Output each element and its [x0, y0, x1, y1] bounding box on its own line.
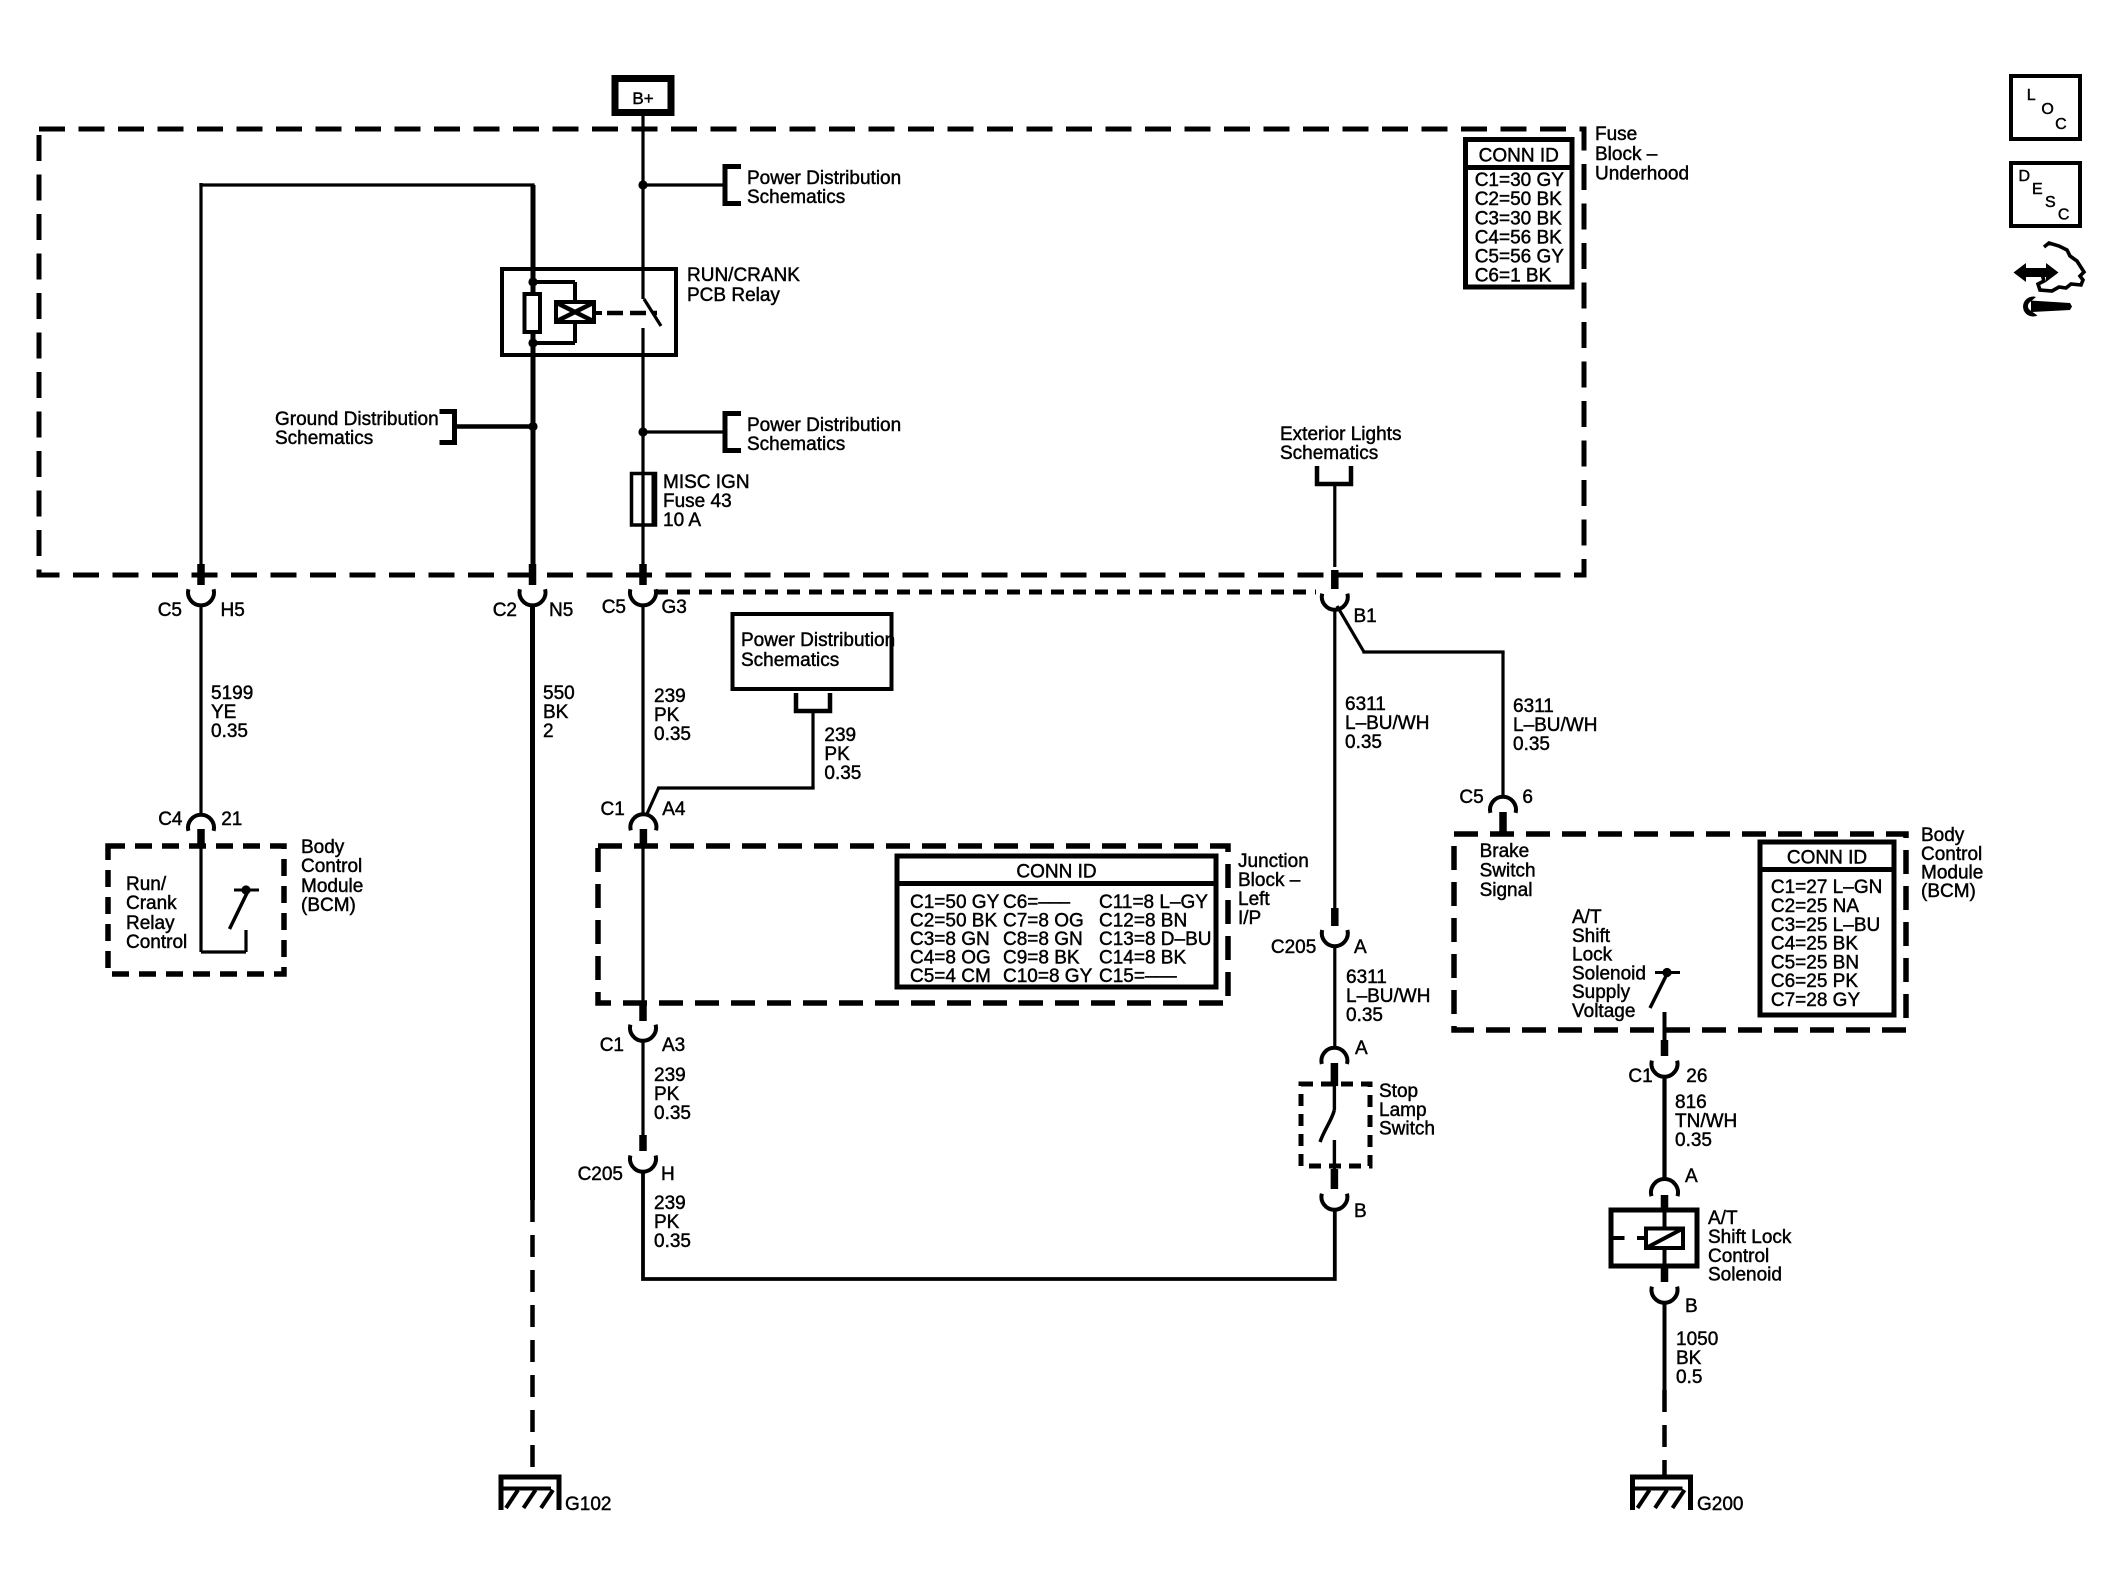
relay switch blade — [644, 299, 661, 326]
svg-text:0.35: 0.35 — [824, 763, 861, 784]
relay switch fixed contact top — [641, 269, 644, 299]
switch BCM pivot dot — [1662, 968, 1671, 977]
svg-text:Signal: Signal — [1480, 880, 1533, 901]
connector C1 A4 — [630, 814, 656, 830]
svg-text:Crank: Crank — [126, 893, 177, 914]
svg-text:Control: Control — [126, 932, 187, 953]
svg-text:B: B — [1685, 1296, 1698, 1317]
svg-text:G200: G200 — [1697, 1494, 1743, 1515]
switch pivot dot — [241, 885, 250, 894]
connector A stop lamp — [1321, 1048, 1347, 1064]
svg-text:C1: C1 — [1628, 1066, 1652, 1087]
svg-text:PK: PK — [654, 1084, 680, 1105]
svg-text:C7=28 GY: C7=28 GY — [1771, 990, 1861, 1011]
svg-text:Module: Module — [301, 876, 363, 897]
svg-text:1050: 1050 — [1676, 1329, 1718, 1350]
icon wrench — [2031, 301, 2072, 313]
wire C205 A to stop lamp A — [1333, 946, 1336, 1049]
connector C2 N5 — [529, 564, 537, 585]
svg-text:Left: Left — [1238, 889, 1270, 910]
relay coil junction dot top — [528, 277, 537, 286]
switch BCM blade — [1650, 976, 1666, 1008]
svg-text:C5=4 CM: C5=4 CM — [910, 966, 991, 987]
svg-text:C3=30 BK: C3=30 BK — [1475, 208, 1562, 229]
fuse block - underhood dashed box — [39, 129, 1584, 575]
svg-text:C: C — [2055, 116, 2067, 133]
wire B1 branch diagonal to brake switch signal — [1337, 606, 1364, 652]
svg-text:C2: C2 — [493, 600, 517, 621]
svg-text:L–BU/WH: L–BU/WH — [1345, 713, 1429, 734]
svg-text:239: 239 — [654, 1065, 686, 1086]
table CONN ID BCM — [1760, 842, 1894, 1015]
connector C205 A — [1331, 908, 1339, 926]
svg-text:0.35: 0.35 — [1675, 1130, 1712, 1151]
wire 550 BK dashed segment to ground — [530, 1200, 535, 1479]
wire dashed to G200 — [1662, 1390, 1667, 1479]
svg-text:816: 816 — [1675, 1092, 1707, 1113]
svg-text:C5=56 GY: C5=56 GY — [1475, 247, 1565, 268]
connector C4 21 — [188, 815, 214, 831]
svg-text:Schematics: Schematics — [741, 650, 839, 671]
svg-text:H5: H5 — [221, 600, 245, 621]
svg-text:Body: Body — [1921, 825, 1965, 846]
svg-text:YE: YE — [211, 702, 236, 723]
svg-text:A: A — [1354, 937, 1367, 958]
connector C5 6 brake switch signal — [1490, 797, 1516, 813]
svg-text:6311: 6311 — [1345, 694, 1386, 715]
wire B1 to C205 A — [1333, 610, 1336, 909]
svg-text:B: B — [1354, 1201, 1367, 1222]
solenoid internal dashed lead — [1614, 1236, 1625, 1240]
connector C205 H — [639, 1135, 647, 1151]
ground G102 — [499, 1475, 562, 1480]
svg-text:10 A: 10 A — [663, 510, 701, 531]
svg-text:Power Distribution: Power Distribution — [747, 415, 901, 436]
svg-text:C5: C5 — [1459, 787, 1483, 808]
stop lamp switch dashed box — [1301, 1084, 1370, 1166]
svg-text:G102: G102 — [565, 1494, 611, 1515]
svg-text:E: E — [2032, 181, 2043, 198]
wire branch from power distribution box — [811, 711, 814, 788]
connector B solenoid — [1661, 1266, 1669, 1282]
svg-text:Ground Distribution: Ground Distribution — [275, 409, 439, 430]
svg-text:RUN/CRANK: RUN/CRANK — [687, 265, 800, 286]
wire BCM internal run/crank — [199, 846, 202, 952]
svg-text:Body: Body — [301, 837, 345, 858]
relay coil X-box symbol — [556, 302, 594, 322]
connector A solenoid — [1651, 1179, 1678, 1196]
svg-text:C4=56 BK: C4=56 BK — [1475, 227, 1562, 248]
wire C1 26 to solenoid A — [1662, 1077, 1666, 1181]
svg-text:G3: G3 — [662, 597, 687, 618]
svg-text:Exterior Lights: Exterior Lights — [1280, 424, 1401, 445]
connector C1 A3 — [639, 1004, 647, 1021]
off-page bracket under power distribution box — [796, 693, 830, 711]
wire left vertical to H5 — [199, 183, 202, 566]
svg-text:(BCM): (BCM) — [1921, 881, 1976, 902]
svg-text:C1=30 GY: C1=30 GY — [1475, 170, 1565, 191]
svg-text:21: 21 — [221, 809, 242, 830]
wire C205 H down and right to stop lamp switch B — [643, 1172, 1335, 1279]
svg-text:C2=50 BK: C2=50 BK — [1475, 189, 1562, 210]
svg-text:L: L — [2027, 87, 2036, 104]
connector B1 — [1331, 570, 1339, 589]
svg-text:239: 239 — [654, 686, 686, 707]
node junction dot at B+ wire to power distribution tap — [638, 180, 647, 189]
svg-text:H: H — [661, 1164, 675, 1185]
svg-text:6: 6 — [1522, 787, 1533, 808]
relay coil resistor box — [525, 294, 541, 332]
wire 550 BK solid segment — [530, 606, 535, 1200]
icon double arrow — [2014, 263, 2059, 282]
svg-text:Run/: Run/ — [126, 874, 167, 895]
svg-text:L–BU/WH: L–BU/WH — [1346, 986, 1430, 1007]
svg-text:Block –: Block – — [1595, 144, 1658, 165]
svg-text:Switch: Switch — [1379, 1119, 1435, 1140]
svg-text:Solenoid: Solenoid — [1708, 1265, 1782, 1286]
svg-text:C: C — [2058, 207, 2070, 224]
svg-text:O: O — [2041, 101, 2053, 118]
svg-text:Block –: Block – — [1238, 870, 1301, 891]
svg-text:239: 239 — [824, 725, 856, 746]
svg-text:C10=8 GY: C10=8 GY — [1003, 966, 1093, 987]
wire BCM output to C1 26 — [1663, 1012, 1667, 1041]
svg-text:A4: A4 — [662, 799, 686, 820]
svg-text:Relay: Relay — [126, 913, 175, 934]
svg-text:0.35: 0.35 — [1513, 734, 1550, 755]
svg-text:PK: PK — [654, 1212, 680, 1233]
svg-text:C4: C4 — [158, 809, 183, 830]
svg-text:N5: N5 — [549, 600, 573, 621]
svg-text:Schematics: Schematics — [1280, 443, 1378, 464]
svg-text:A3: A3 — [662, 1035, 685, 1056]
LOC reference box — [2011, 76, 2080, 139]
svg-text:C15=–––: C15=––– — [1099, 966, 1177, 987]
svg-text:Fuse: Fuse — [1595, 124, 1637, 145]
svg-text:Junction: Junction — [1238, 851, 1309, 872]
svg-text:0.35: 0.35 — [654, 724, 691, 745]
relay coil junction dot bottom — [528, 338, 537, 347]
svg-text:PK: PK — [824, 744, 850, 765]
relay RUN/CRANK PCB relay outline — [502, 269, 676, 355]
svg-text:C6=1 BK: C6=1 BK — [1475, 266, 1552, 287]
svg-text:Underhood: Underhood — [1595, 164, 1689, 185]
svg-text:TN/WH: TN/WH — [1675, 1111, 1737, 1132]
connector C1 26 — [1661, 1040, 1669, 1056]
svg-text:26: 26 — [1686, 1066, 1707, 1087]
svg-text:A: A — [1685, 1166, 1698, 1187]
svg-text:2: 2 — [543, 721, 554, 742]
connector C5 H5 — [197, 564, 205, 585]
wire fuse to G3 — [641, 525, 644, 566]
svg-text:Control: Control — [301, 856, 362, 877]
wire solenoid B down — [1663, 1303, 1667, 1390]
connector C5 G3 — [639, 564, 647, 585]
svg-text:D: D — [2019, 168, 2031, 185]
ground G200 — [1630, 1475, 1693, 1480]
svg-text:CONN ID: CONN ID — [1016, 862, 1096, 883]
DESC reference box — [2011, 163, 2080, 226]
svg-text:C205: C205 — [578, 1164, 623, 1185]
svg-text:Fuse 43: Fuse 43 — [663, 491, 732, 512]
svg-text:C1: C1 — [601, 799, 625, 820]
junction block left I/P dashed box — [598, 846, 1228, 1003]
svg-text:BK: BK — [543, 702, 569, 723]
svg-text:A: A — [1355, 1038, 1368, 1059]
svg-text:S: S — [2045, 194, 2056, 211]
svg-text:A/T: A/T — [1708, 1208, 1738, 1229]
A/T shift lock control solenoid box — [1611, 1210, 1697, 1266]
svg-text:0.35: 0.35 — [1345, 732, 1382, 753]
svg-text:Schematics: Schematics — [747, 187, 845, 208]
svg-text:L–BU/WH: L–BU/WH — [1513, 715, 1597, 736]
junction block boundary dotted line — [655, 590, 1316, 595]
off-page connector bracket power distribution (lower) — [725, 414, 741, 451]
svg-text:0.35: 0.35 — [1346, 1005, 1383, 1026]
wire A3 to C205 H — [641, 1041, 644, 1136]
svg-text:Schematics: Schematics — [275, 428, 373, 449]
svg-text:Brake: Brake — [1480, 841, 1530, 862]
svg-text:BK: BK — [1676, 1348, 1702, 1369]
switch pivot tick — [234, 889, 259, 892]
svg-text:B+: B+ — [632, 89, 653, 108]
power distribution schematics box — [733, 614, 892, 689]
svg-text:I/P: I/P — [1238, 908, 1261, 929]
fuse MISC IGN Fuse 43 symbol — [632, 474, 656, 526]
svg-text:PCB Relay: PCB Relay — [687, 285, 780, 306]
connector B stop lamp — [1331, 1169, 1339, 1189]
svg-text:MISC IGN: MISC IGN — [663, 472, 750, 493]
wire through solenoid box — [1663, 1212, 1667, 1266]
wire horizontal run/crank coil feed — [199, 183, 534, 186]
icon curvy outline — [2038, 243, 2084, 291]
svg-text:Power Distribution: Power Distribution — [741, 630, 895, 651]
off-page connector bracket power distribution (top) — [725, 167, 741, 204]
wire exterior lights feed down — [1333, 484, 1336, 567]
svg-text:6311: 6311 — [1513, 696, 1554, 717]
relay coil loop wires — [533, 280, 575, 284]
svg-text:0.35: 0.35 — [211, 721, 248, 742]
svg-text:C5: C5 — [158, 600, 182, 621]
svg-text:Power Distribution: Power Distribution — [747, 168, 901, 189]
svg-text:Shift Lock: Shift Lock — [1708, 1227, 1792, 1248]
switch BCM solenoid supply driver tick — [1655, 971, 1680, 974]
svg-text:(BCM): (BCM) — [301, 895, 356, 916]
relay switch fixed contact bottom — [641, 328, 644, 356]
wire tap to power distribution bracket (lower) — [643, 430, 723, 433]
off-page connector bracket exterior lights — [1317, 466, 1351, 484]
svg-text:C205: C205 — [1271, 937, 1316, 958]
node junction dot misc ign tap — [638, 427, 647, 436]
svg-text:Stop: Stop — [1379, 1081, 1418, 1102]
svg-text:C1: C1 — [600, 1035, 624, 1056]
switch run/crank relay driver blade — [230, 893, 248, 929]
svg-text:0.5: 0.5 — [1676, 1367, 1702, 1388]
wire H5 to C4 — [199, 606, 202, 815]
wire ground distribution tap — [456, 424, 533, 429]
wire relay to fuse — [641, 356, 644, 526]
svg-text:0.35: 0.35 — [654, 1231, 691, 1252]
svg-text:CONN ID: CONN ID — [1479, 146, 1559, 167]
svg-text:Schematics: Schematics — [747, 434, 845, 455]
relay dashed actuation link — [594, 311, 602, 315]
svg-text:5199: 5199 — [211, 683, 253, 704]
wire G3 to A4 — [641, 606, 644, 815]
off-page connector bracket ground distribution — [440, 412, 455, 443]
svg-text:B1: B1 — [1354, 606, 1377, 627]
svg-text:CONN ID: CONN ID — [1787, 848, 1867, 869]
svg-text:6311: 6311 — [1346, 967, 1387, 988]
svg-text:C5: C5 — [602, 597, 626, 618]
wire A4 to A3 inside junction block — [641, 847, 644, 1005]
wire relay coil vertical (550 BK thick) — [531, 185, 536, 567]
svg-text:PK: PK — [654, 705, 680, 726]
svg-text:0.35: 0.35 — [654, 1103, 691, 1124]
switch stop lamp blade — [1333, 1086, 1336, 1110]
body control module dashed box — [1454, 834, 1906, 1030]
run/crank relay control dashed box — [108, 846, 284, 974]
wire tap to power distribution bracket — [643, 183, 723, 186]
node junction dot ground distribution tap — [528, 422, 537, 431]
solenoid inner symbol — [1646, 1229, 1683, 1249]
B+ battery feed symbol — [615, 79, 671, 113]
table CONN ID fuse block underhood — [1466, 140, 1573, 288]
svg-text:Voltage: Voltage — [1572, 1001, 1635, 1022]
table CONN ID junction block — [897, 856, 1216, 987]
wire B+ feed down into fuse block — [641, 116, 644, 269]
svg-text:Switch: Switch — [1480, 861, 1536, 882]
svg-text:550: 550 — [543, 683, 575, 704]
svg-text:239: 239 — [654, 1193, 686, 1214]
